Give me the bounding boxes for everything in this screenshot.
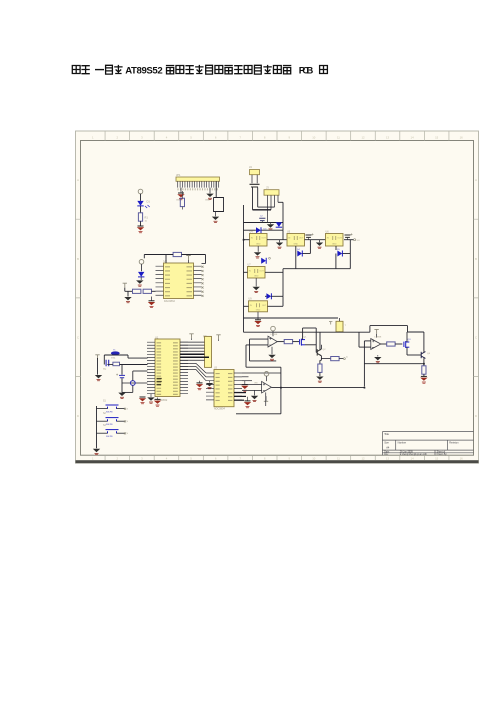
svg-text:A4: A4 [386, 445, 390, 449]
junction [364, 387, 366, 389]
svg-text:JP1: JP1 [176, 173, 181, 177]
wire [246, 344, 268, 346]
capacitor C9 [130, 381, 135, 386]
svg-text:VO: VO [357, 240, 360, 242]
JP1 pins [178, 181, 219, 187]
svg-text:XTAL: XTAL [111, 356, 116, 359]
ground [251, 396, 258, 399]
ground [140, 277, 142, 280]
wire [140, 206, 142, 213]
wire [246, 366, 281, 368]
wire [104, 355, 147, 365]
svg-text:LM358: LM358 [375, 336, 382, 338]
svg-text:AT89S52: AT89S52 [125, 65, 163, 76]
wire [242, 384, 262, 386]
junction [423, 363, 425, 365]
wire [244, 305, 249, 307]
capacitor C8 [119, 375, 125, 377]
wire [423, 351, 425, 353]
regulator U9 [249, 301, 268, 312]
transistor Q2 [317, 349, 321, 356]
svg-text:Sheet of: Sheet of [437, 450, 446, 453]
wire [165, 255, 167, 264]
power symbol [186, 256, 190, 261]
svg-text:GND: GND [205, 200, 210, 202]
junction [243, 239, 245, 241]
wire [295, 254, 297, 269]
wire [244, 229, 256, 231]
ground [215, 212, 217, 217]
power symbol VCC [138, 189, 143, 194]
wire [316, 351, 317, 353]
wire [236, 413, 281, 415]
ground [257, 246, 259, 252]
svg-text:16: 16 [460, 456, 464, 460]
power symbol [123, 283, 127, 288]
ground [157, 398, 159, 400]
wire [140, 221, 142, 226]
wire [423, 358, 425, 366]
junction [280, 387, 282, 389]
wire [265, 271, 283, 273]
svg-text:SW-PB: SW-PB [106, 424, 113, 426]
document title text [72, 65, 122, 74]
svg-text:11: 11 [337, 136, 340, 140]
wire [363, 341, 365, 387]
svg-text:Size: Size [384, 441, 389, 444]
wire [121, 365, 123, 375]
resistor R4 [133, 289, 141, 293]
wire [124, 288, 126, 292]
wire [293, 341, 299, 343]
wire [253, 209, 272, 211]
power symbol [189, 334, 193, 339]
ground [150, 394, 152, 397]
U1 bold pin names [157, 379, 162, 385]
wire [344, 239, 354, 241]
wire [271, 386, 364, 388]
svg-text:10: 10 [312, 136, 316, 140]
wire [381, 343, 387, 345]
wire [234, 392, 246, 394]
wire [335, 246, 337, 250]
svg-text:OUT: OUT [299, 238, 304, 240]
svg-text:GND: GND [256, 244, 261, 246]
svg-text:OUT: OUT [259, 271, 264, 273]
U1 left pins [147, 342, 155, 394]
U3 left pins [206, 373, 214, 400]
ground [138, 225, 144, 227]
svg-text:File:: File: [384, 454, 389, 456]
wire bundle [180, 362, 196, 364]
op-amp U11B [262, 381, 272, 393]
resistor R11 [113, 362, 120, 366]
resistor R2 [181, 191, 183, 198]
wire EA [180, 353, 205, 355]
capacitor C5 [345, 235, 351, 237]
svg-text:15: 15 [435, 136, 439, 140]
voltage reference U10 [329, 322, 332, 325]
power symbol [216, 335, 220, 340]
diode D4 [297, 251, 302, 257]
svg-text:15: 15 [435, 456, 439, 460]
ground [199, 381, 201, 383]
wire [268, 305, 284, 307]
wire [96, 406, 98, 448]
svg-text:OUT: OUT [262, 305, 267, 307]
diode D7 [266, 293, 271, 299]
transistor Q4 [421, 352, 425, 359]
wire [242, 372, 281, 374]
ground [244, 381, 246, 385]
capacitor C1 [250, 184, 260, 187]
JP1 pin numbers [178, 188, 219, 190]
ground [255, 278, 257, 286]
ground [271, 347, 273, 355]
wire [107, 364, 113, 366]
regulator U5 7805 [287, 234, 305, 247]
svg-text:R1: R1 [145, 216, 149, 220]
wire [121, 383, 123, 392]
svg-text:11: 11 [337, 456, 340, 460]
wire [335, 246, 337, 254]
wire [406, 332, 408, 342]
wire [343, 253, 351, 255]
power symbol VCC [271, 326, 276, 331]
U3 right pins [234, 373, 242, 400]
U3 pin names [216, 374, 220, 401]
svg-text:14: 14 [411, 456, 415, 460]
U2 pin hooks [202, 266, 204, 268]
ground [270, 223, 272, 225]
svg-text:Drawn By:: Drawn By: [437, 453, 448, 456]
svg-text:GND: GND [254, 276, 259, 278]
capacitor C2 [259, 218, 265, 220]
wire [319, 332, 321, 350]
ground [209, 188, 211, 194]
resistor R6 [284, 340, 292, 344]
ground [118, 393, 125, 396]
svg-text:14: 14 [411, 136, 415, 140]
ground [319, 240, 321, 243]
U2 left pins [156, 266, 164, 295]
transistor Q3 [404, 341, 409, 348]
power symbol [265, 396, 267, 401]
ground [421, 375, 427, 377]
wire [303, 253, 311, 255]
wire [257, 188, 259, 208]
ground [124, 297, 131, 300]
wire [339, 331, 341, 333]
capacitor C6 [106, 360, 109, 366]
wire [244, 239, 250, 241]
wire [282, 230, 284, 240]
U2 pin names [165, 267, 170, 296]
wire [305, 344, 316, 346]
JP4 pins [251, 175, 253, 184]
svg-text:Revision: Revision [449, 441, 459, 444]
node Iout [344, 358, 346, 360]
wire [254, 390, 256, 395]
svg-text:Date:: Date: [384, 450, 390, 453]
svg-text:ADC0804: ADC0804 [214, 408, 225, 411]
crystal Y1 [111, 351, 120, 355]
wire [370, 325, 408, 327]
svg-text:30p: 30p [103, 369, 106, 371]
wire [244, 317, 339, 319]
svg-text:10: 10 [312, 456, 316, 460]
wire [127, 291, 129, 296]
svg-text:A: A [475, 178, 477, 182]
resistor R9 [387, 342, 395, 346]
svg-text:GND: GND [332, 244, 337, 246]
wire [245, 345, 247, 367]
power symbol VCC [264, 372, 269, 377]
wire [250, 338, 269, 340]
wire [295, 246, 297, 254]
power symbol VCC [139, 260, 144, 265]
wire [252, 188, 254, 210]
diode D6 [261, 258, 266, 264]
svg-text:B: B [475, 257, 477, 261]
svg-text:SW-PB: SW-PB [106, 412, 113, 414]
wire [321, 358, 330, 360]
svg-text:GND: GND [256, 309, 261, 311]
svg-text:DAC0832: DAC0832 [164, 300, 175, 303]
wire [250, 360, 277, 362]
wire [244, 222, 284, 224]
diode D3 [256, 227, 261, 233]
svg-text:B: B [77, 257, 79, 261]
ground [257, 312, 259, 320]
wire [244, 331, 370, 333]
ground [140, 396, 146, 398]
svg-text:D1: D1 [147, 200, 151, 204]
wire [305, 239, 326, 241]
wire [265, 295, 266, 297]
power symbol [374, 329, 378, 334]
svg-text:12: 12 [361, 456, 365, 460]
svg-text:13: 13 [386, 136, 390, 140]
wire [423, 374, 425, 376]
wire [152, 290, 156, 292]
svg-text:E:\design\hengliuyuan.ddb: E:\design\hengliuyuan.ddb [400, 454, 428, 456]
JP3 pins [267, 195, 269, 222]
wire [407, 326, 409, 332]
wire [121, 378, 123, 383]
wire [320, 345, 322, 349]
wire [144, 254, 173, 256]
wire [395, 343, 402, 345]
resistor R8 [331, 357, 339, 361]
op-amp U11A [268, 336, 277, 347]
wire [369, 326, 371, 333]
svg-text:Title: Title [384, 432, 389, 436]
ground [209, 381, 211, 383]
U2 right pins [194, 266, 202, 295]
op-amp U12A [371, 339, 381, 350]
diode D8 [138, 272, 144, 277]
node VO [354, 239, 356, 241]
wire [242, 389, 262, 391]
resistor R1 [138, 213, 142, 221]
resistor R10 [422, 366, 426, 374]
ground [95, 375, 102, 378]
wire [364, 363, 424, 365]
wire [242, 376, 249, 378]
ground [316, 377, 323, 380]
wire [258, 206, 275, 208]
wire [302, 328, 304, 340]
diode D6b [276, 222, 282, 227]
wire [282, 269, 284, 297]
regulator U4 7805 [250, 234, 268, 247]
RP1 pin rows [180, 341, 205, 343]
svg-text:16: 16 [460, 136, 464, 140]
ground [180, 188, 182, 194]
resistor R7 [318, 364, 322, 372]
svg-text:13: 13 [386, 456, 390, 460]
svg-text:GND: GND [293, 244, 298, 246]
LED D1 [137, 201, 143, 206]
svg-text:OUT: OUT [261, 238, 266, 240]
diode D5 [337, 251, 342, 257]
wire [359, 346, 371, 348]
resistor R5 [143, 289, 151, 293]
wire [339, 358, 343, 360]
wire [319, 372, 321, 376]
svg-text:Number: Number [398, 441, 407, 444]
regulator U7 [248, 267, 266, 279]
wire [244, 271, 248, 273]
power symbol [95, 355, 99, 360]
svg-text:OUT: OUT [337, 238, 342, 240]
ground [279, 240, 281, 243]
svg-text:LM358: LM358 [271, 334, 278, 336]
svg-text:SW-PB: SW-PB [106, 436, 113, 438]
wire [406, 347, 408, 355]
wire [278, 201, 283, 203]
wire [277, 341, 284, 343]
wire [364, 340, 370, 342]
wire [283, 268, 350, 270]
wire loop [214, 181, 224, 211]
U1 right pins [180, 342, 188, 394]
transistor Q1 [300, 339, 305, 346]
wire [267, 239, 287, 241]
regulator U6 7812 [326, 234, 344, 247]
svg-text:PCB: PCB [299, 65, 314, 76]
title block [382, 432, 473, 456]
ground [151, 297, 153, 302]
resistor R3 [173, 252, 181, 256]
capacitor C4 [306, 235, 312, 237]
wire [320, 356, 322, 361]
ground [247, 397, 249, 401]
wire [249, 339, 251, 361]
ground [377, 355, 379, 357]
svg-text:A: A [77, 178, 79, 182]
wire [243, 205, 245, 332]
schematic sheet background [76, 131, 479, 463]
U1 pin names [157, 343, 162, 395]
svg-text:12: 12 [361, 136, 365, 140]
ground [93, 449, 100, 452]
